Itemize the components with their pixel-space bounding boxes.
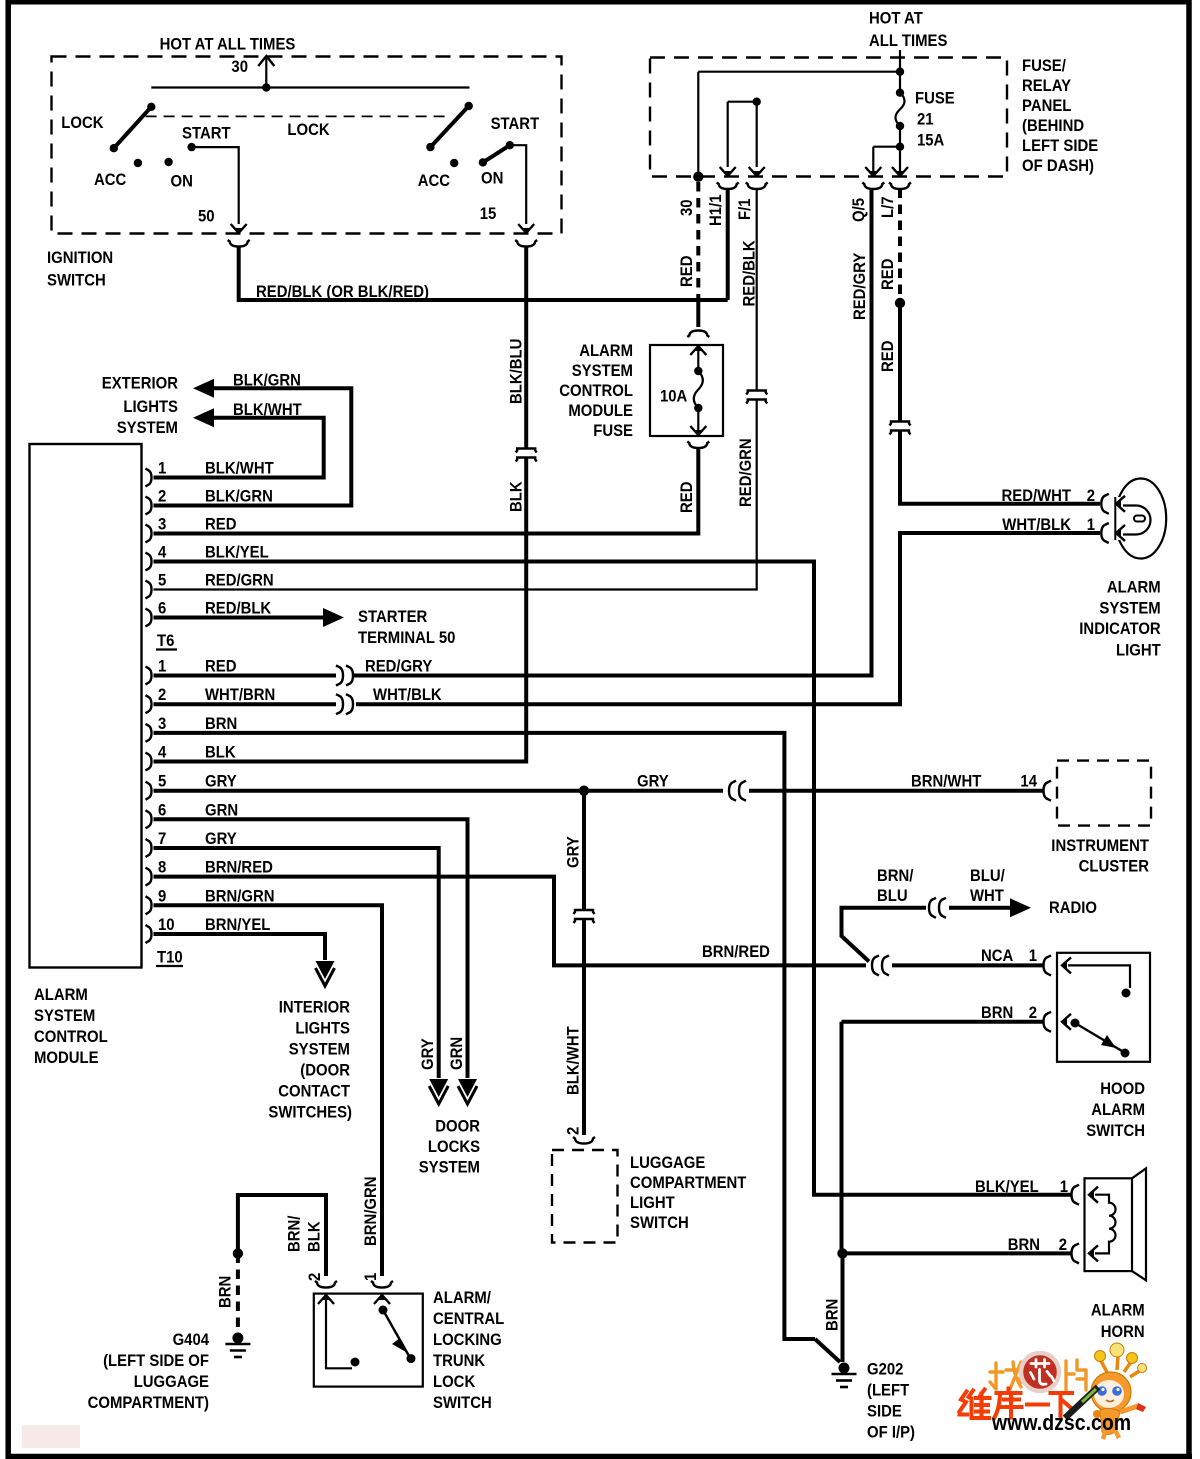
wire pin5 GRY to instrument cluster xyxy=(154,789,724,793)
in-line connector pin2 xyxy=(336,694,343,714)
svg-text:LOCK: LOCK xyxy=(433,1373,475,1391)
module T10 pin 2 connector xyxy=(146,695,152,713)
svg-text:BLK: BLK xyxy=(508,481,526,512)
svg-text:FUSE: FUSE xyxy=(593,422,633,440)
wire L/7 RED down xyxy=(898,189,902,299)
svg-text:BLK/GRN: BLK/GRN xyxy=(233,372,301,390)
module T10 pin 4 connector xyxy=(146,753,152,771)
svg-text:1: 1 xyxy=(1087,516,1095,534)
svg-text:SIDE: SIDE xyxy=(867,1403,902,1421)
junction below fuse 21 xyxy=(896,143,904,151)
svg-text:BLU/: BLU/ xyxy=(970,867,1005,885)
svg-text:6: 6 xyxy=(158,600,166,618)
svg-text:BLK/GRN: BLK/GRN xyxy=(205,488,273,506)
svg-text:SYSTEM: SYSTEM xyxy=(34,1007,95,1025)
trunk switch pin 2 arrow xyxy=(318,1295,334,1304)
connector H1/1 xyxy=(717,183,739,190)
svg-text:ON: ON xyxy=(171,173,193,191)
svg-text:BLK/BLU: BLK/BLU xyxy=(508,339,526,404)
svg-text:2: 2 xyxy=(565,1127,583,1135)
module T10 pin 5 connector xyxy=(146,782,152,800)
svg-text:BLK/WHT: BLK/WHT xyxy=(565,1026,583,1095)
arrow to radio xyxy=(1010,898,1031,917)
junction terminal 30 at panel edge xyxy=(693,172,703,182)
svg-text:ALARM: ALARM xyxy=(1091,1302,1145,1320)
svg-text:MODULE: MODULE xyxy=(34,1049,99,1067)
svg-text:LOCK: LOCK xyxy=(61,114,103,132)
svg-text:WHT: WHT xyxy=(970,887,1004,905)
watermark logo zhao character (find) xyxy=(990,1362,1022,1389)
svg-text:30: 30 xyxy=(678,199,696,216)
ignition switch dashed box xyxy=(52,57,562,234)
wire BRN/BLU radio branch xyxy=(842,908,927,962)
svg-text:RED: RED xyxy=(678,255,696,287)
in-line connector BRN/RED xyxy=(872,955,879,975)
svg-text:OF DASH): OF DASH) xyxy=(1022,157,1094,175)
horn coil xyxy=(1095,1195,1116,1254)
svg-text:IGNITION: IGNITION xyxy=(47,249,113,267)
svg-text:INTERIOR: INTERIOR xyxy=(279,999,350,1017)
module T10 pin 1 connector xyxy=(146,667,152,685)
wire BRN from hood switch down to ground junction xyxy=(840,1022,844,1254)
wire battery feed into fuse 21 xyxy=(899,50,901,92)
in-line connector pin1 xyxy=(336,666,343,686)
luggage compartment light switch dashed box xyxy=(552,1150,618,1243)
wire inside hood switch xyxy=(1068,965,1130,988)
connector trunk switch pin 2 xyxy=(315,1281,337,1288)
connector L/7 xyxy=(889,183,911,190)
svg-text:RED/BLK: RED/BLK xyxy=(205,600,271,618)
svg-text:1: 1 xyxy=(158,460,166,478)
svg-text:DOOR: DOOR xyxy=(435,1118,480,1136)
connector into fuse box top xyxy=(687,331,709,338)
svg-text:RED: RED xyxy=(678,481,696,513)
wire GRY branch down to luggage compartment light switch xyxy=(582,791,586,910)
ground G404 xyxy=(232,1333,243,1344)
svg-text:LUGGAGE: LUGGAGE xyxy=(134,1373,209,1391)
bulb terminal arrow 2 xyxy=(1116,496,1125,512)
svg-text:ALARM: ALARM xyxy=(34,986,88,1004)
in-line break terminal 15 wire xyxy=(516,449,537,453)
in-line break F/1 wire xyxy=(746,391,767,395)
horn terminal arrow 2 xyxy=(1089,1245,1098,1261)
arrow into terminal 15 xyxy=(518,224,534,233)
svg-text:HOT AT: HOT AT xyxy=(869,10,923,28)
trunk switch contact dot xyxy=(351,1358,360,1367)
wire RED/GRN to module pin5 xyxy=(154,400,757,590)
svg-text:Q/5: Q/5 xyxy=(850,198,868,222)
svg-text:15: 15 xyxy=(480,205,497,223)
wire RED/WHT to indicator light xyxy=(900,431,1100,504)
svg-text:LOCKS: LOCKS xyxy=(428,1138,480,1156)
wire BLK/BLU from terminal 15 down xyxy=(524,246,528,449)
svg-text:10: 10 xyxy=(158,916,175,934)
svg-text:BLK: BLK xyxy=(205,744,236,762)
svg-text:TRUNK: TRUNK xyxy=(433,1352,485,1370)
hood switch pin 1 arrow xyxy=(1062,957,1071,973)
svg-text:BRN/GRN: BRN/GRN xyxy=(205,887,275,905)
svg-text:BRN/: BRN/ xyxy=(877,867,914,885)
svg-text:COMPARTMENT): COMPARTMENT) xyxy=(88,1394,209,1412)
wire Q/5 RED/GRY down xyxy=(354,189,872,676)
module T6 pin 2 connector xyxy=(146,497,152,515)
svg-text:ALL TIMES: ALL TIMES xyxy=(869,32,947,50)
svg-text:BRN/WHT: BRN/WHT xyxy=(911,773,981,791)
wire link H1/1 to F/1 xyxy=(728,101,757,103)
svg-text:H1/1: H1/1 xyxy=(707,195,725,227)
svg-text:BRN: BRN xyxy=(1008,1236,1040,1254)
wire BRN to hood alarm switch pin 2 xyxy=(842,1020,1044,1024)
svg-text:6: 6 xyxy=(158,801,166,819)
svg-text:G404: G404 xyxy=(173,1331,210,1349)
junction BRN ground wire xyxy=(837,1248,847,1258)
module T6 pin 5 connector xyxy=(146,581,152,599)
fuse F21 15A xyxy=(896,89,904,97)
junction GRY branch xyxy=(579,786,589,796)
fuse 10A element xyxy=(694,371,703,408)
svg-text:CONTROL: CONTROL xyxy=(559,382,633,400)
wire branch to terminal 30 xyxy=(698,71,900,73)
svg-text:RELAY: RELAY xyxy=(1022,77,1071,95)
svg-text:F/1: F/1 xyxy=(736,199,754,221)
svg-text:OF I/P): OF I/P) xyxy=(867,1424,915,1442)
svg-text:SYSTEM: SYSTEM xyxy=(419,1159,480,1177)
svg-text:BLK: BLK xyxy=(306,1221,324,1252)
svg-text:G202: G202 xyxy=(867,1361,903,1379)
svg-text:LIGHT: LIGHT xyxy=(1116,641,1161,659)
module T10 pin 7 connector xyxy=(146,839,152,857)
svg-text:BRN: BRN xyxy=(205,715,237,733)
module T10 pin 8 connector xyxy=(146,868,152,886)
svg-text:T6: T6 xyxy=(157,632,174,650)
alarm/central locking trunk lock switch box xyxy=(314,1294,423,1387)
svg-text:ALARM: ALARM xyxy=(579,342,633,360)
svg-text:BRN/: BRN/ xyxy=(286,1215,304,1252)
svg-text:CONTROL: CONTROL xyxy=(34,1028,108,1046)
wire down to terminal 30 xyxy=(697,72,699,173)
svg-text:WHT/BRN: WHT/BRN xyxy=(205,686,275,704)
wire on contact to terminal 15 xyxy=(510,145,526,224)
wire pin2 BLK/GRN to exterior lights xyxy=(154,388,352,505)
svg-text:BLK/YEL: BLK/YEL xyxy=(205,544,269,562)
svg-text:RADIO: RADIO xyxy=(1049,899,1097,917)
svg-text:SWITCH: SWITCH xyxy=(630,1214,689,1232)
junction BRN dashed xyxy=(233,1248,243,1258)
wire fuse 21 output xyxy=(899,126,901,173)
svg-text:MODULE: MODULE xyxy=(568,402,633,420)
wire WHT/BLK from connector to indicator light xyxy=(356,533,1100,704)
junction F/1 top xyxy=(753,98,761,106)
svg-text:4: 4 xyxy=(158,744,167,762)
trunk switch contact dot 2 xyxy=(407,1354,416,1363)
watermark logo pian character (chip) xyxy=(1066,1360,1086,1390)
svg-text:WHT/BLK: WHT/BLK xyxy=(373,686,442,704)
wire RED dashed from terminal 30 xyxy=(696,182,700,297)
connector fuse box bottom xyxy=(687,442,709,449)
svg-text:HORN: HORN xyxy=(1101,1323,1145,1341)
watermark mascot xyxy=(1065,1343,1147,1439)
svg-text:RED: RED xyxy=(879,340,897,372)
wire pin2 WHT/BRN to in-line connector xyxy=(154,702,337,706)
wire pin7 GRY down to door locks xyxy=(154,848,439,1078)
wire pin6 RED/BLK to starter terminal 50 xyxy=(154,616,325,620)
arrow GRY to door locks system xyxy=(429,1079,448,1097)
svg-text:14: 14 xyxy=(1020,773,1037,791)
svg-text:RED/BLK (OR BLK/RED): RED/BLK (OR BLK/RED) xyxy=(256,283,429,301)
svg-text:BLK/WHT: BLK/WHT xyxy=(233,401,302,419)
svg-text:GRY: GRY xyxy=(205,773,237,791)
svg-text:5: 5 xyxy=(158,773,166,791)
hood switch pin 2 arrow xyxy=(1062,1014,1071,1030)
svg-text:START: START xyxy=(491,115,540,133)
svg-text:INDICATOR: INDICATOR xyxy=(1079,620,1160,638)
wire ignition B+ feed up xyxy=(265,58,267,88)
svg-text:RED/WHT: RED/WHT xyxy=(1002,487,1072,505)
svg-text:SYSTEM: SYSTEM xyxy=(1099,599,1160,617)
wire pin9 BRN/GRN down to trunk lock switch xyxy=(154,905,383,1276)
svg-text:www.dzsc.com: www.dzsc.com xyxy=(991,1410,1131,1435)
svg-text:(DOOR: (DOOR xyxy=(300,1062,350,1080)
bulb terminal arrow 1 xyxy=(1116,525,1125,541)
wire pin1 BLK/WHT to exterior lights xyxy=(154,418,324,478)
svg-text:3: 3 xyxy=(158,516,166,534)
arrow GRN to door locks system xyxy=(458,1079,477,1097)
svg-text:(LEFT: (LEFT xyxy=(867,1382,909,1400)
svg-text:21: 21 xyxy=(917,111,934,129)
wire pin6 GRN down to door locks xyxy=(154,819,468,1078)
svg-text:GRY: GRY xyxy=(205,830,237,848)
horn terminal arrow 1 xyxy=(1089,1187,1098,1203)
wire pin1 RED to in-line connector xyxy=(154,674,337,678)
svg-text:5: 5 xyxy=(158,572,166,590)
svg-text:BRN: BRN xyxy=(981,1004,1013,1022)
svg-text:HOT AT ALL TIMES: HOT AT ALL TIMES xyxy=(160,36,296,54)
svg-text:RED/GRN: RED/GRN xyxy=(205,572,274,590)
svg-text:LOCK: LOCK xyxy=(287,121,329,139)
svg-text:BRN/RED: BRN/RED xyxy=(205,859,273,877)
wire BRN dashed to G404 xyxy=(236,1254,240,1333)
wire BLK down to module pin4 xyxy=(154,458,527,762)
arrow to exterior lights system BLK/WHT xyxy=(193,408,214,427)
svg-text:30: 30 xyxy=(231,58,248,76)
svg-text:BRN: BRN xyxy=(217,1276,235,1308)
mechanical coupling dashed line xyxy=(146,115,447,117)
svg-text:TERMINAL 50: TERMINAL 50 xyxy=(358,629,455,647)
junction L/7 RED xyxy=(895,298,905,308)
svg-text:2: 2 xyxy=(1087,487,1095,505)
arrow terminal Q/5 xyxy=(865,167,881,176)
wire RED from fuse to module pin3 xyxy=(154,448,699,534)
svg-text:RED: RED xyxy=(205,516,237,534)
connector hood alarm switch pin 2 xyxy=(1044,1012,1052,1032)
svg-text:ACC: ACC xyxy=(94,171,126,189)
wire NCA to hood alarm switch xyxy=(892,963,1043,967)
svg-text:2: 2 xyxy=(1029,1004,1037,1022)
wire pin3 BRN down to G202 xyxy=(154,733,816,1339)
svg-text:(LEFT SIDE OF: (LEFT SIDE OF xyxy=(103,1352,209,1370)
svg-text:L/7: L/7 xyxy=(879,197,897,219)
arrow to exterior lights system BLK/GRN xyxy=(193,379,214,398)
svg-text:LOCKING: LOCKING xyxy=(433,1331,502,1349)
svg-text:SYSTEM: SYSTEM xyxy=(117,419,178,437)
svg-text:ON: ON xyxy=(481,170,503,188)
svg-text:INSTRUMENT: INSTRUMENT xyxy=(1051,837,1149,855)
connector terminal 50 xyxy=(228,240,250,247)
svg-text:RED/GRN: RED/GRN xyxy=(737,438,755,507)
svg-text:LIGHTS: LIGHTS xyxy=(295,1020,350,1038)
module T10 pin 9 connector xyxy=(146,896,152,914)
wire BRN diagonal to G202 xyxy=(815,1339,840,1362)
right ignition switch contacts xyxy=(465,102,473,110)
in-line break GRY branch xyxy=(574,910,595,914)
svg-text:10A: 10A xyxy=(660,388,687,406)
svg-text:(BEHIND: (BEHIND xyxy=(1022,117,1084,135)
svg-text:BLK/YEL: BLK/YEL xyxy=(975,1178,1039,1196)
svg-text:RED: RED xyxy=(205,658,237,676)
svg-text:RED/GRY: RED/GRY xyxy=(365,658,432,676)
trunk switch blade xyxy=(383,1310,409,1356)
wire start contact to terminal 50 xyxy=(192,147,239,224)
arrow to interior lights system xyxy=(316,961,335,979)
connector Q/5 xyxy=(862,183,884,190)
svg-text:FUSE/: FUSE/ xyxy=(1022,57,1066,75)
in-line break L/7 wire xyxy=(890,422,911,426)
wire BRN/BLK trunk pin2 to G404 xyxy=(238,1195,326,1276)
svg-text:4: 4 xyxy=(158,544,167,562)
wire BRN down to G202 xyxy=(841,1253,845,1362)
ground G202 xyxy=(839,1363,850,1374)
svg-text:LIGHTS: LIGHTS xyxy=(123,398,178,416)
svg-text:GRY: GRY xyxy=(637,773,669,791)
left ignition switch contacts xyxy=(147,103,155,111)
watermark text weikuyixia (vector) xyxy=(960,1389,1073,1419)
alarm system control module fuse box xyxy=(650,345,723,436)
svg-text:2: 2 xyxy=(306,1273,324,1281)
svg-text:1: 1 xyxy=(1060,1178,1068,1196)
svg-text:BLU: BLU xyxy=(877,887,908,905)
connector hood alarm switch pin 1 xyxy=(1044,955,1052,975)
svg-text:SWITCH: SWITCH xyxy=(433,1394,492,1412)
wire RED/BLK from terminal 50 xyxy=(239,246,728,300)
svg-text:BRN/RED: BRN/RED xyxy=(702,943,770,961)
svg-text:3: 3 xyxy=(158,715,166,733)
wire inside fuse box xyxy=(697,350,699,371)
connector alarm horn pin 2 xyxy=(1072,1243,1080,1263)
svg-text:15A: 15A xyxy=(917,132,944,150)
module T10 pin 3 connector xyxy=(146,724,152,742)
svg-text:NCA: NCA xyxy=(981,947,1013,965)
svg-text:EXTERIOR: EXTERIOR xyxy=(102,375,178,393)
in-line connector GRY/BRN-WHT xyxy=(729,781,736,801)
scan artifact pink rectangle xyxy=(22,1425,80,1448)
connector F/1 xyxy=(746,183,768,190)
svg-text:SWITCH: SWITCH xyxy=(47,272,106,290)
instrument cluster dashed box xyxy=(1057,761,1151,826)
hood switch contact dot 2 xyxy=(1121,1049,1130,1058)
svg-text:ALARM/: ALARM/ xyxy=(433,1289,491,1307)
svg-text:SWITCH: SWITCH xyxy=(1086,1122,1145,1140)
svg-text:BLK/WHT: BLK/WHT xyxy=(205,460,274,478)
wire BRN to alarm horn pin 2 xyxy=(843,1251,1072,1255)
wire pin10 BRN/YEL to interior lights xyxy=(154,934,326,960)
arrow terminal H1/1 xyxy=(720,167,736,176)
svg-text:ACC: ACC xyxy=(418,172,450,190)
svg-text:T10: T10 xyxy=(157,949,183,967)
svg-text:CENTRAL: CENTRAL xyxy=(433,1310,504,1328)
watermark magnifier with xin character xyxy=(1021,1353,1059,1391)
wire BRN/WHT to instrument cluster xyxy=(749,789,1043,793)
wire ignition internal bus xyxy=(151,86,469,88)
svg-text:START: START xyxy=(182,125,231,143)
svg-text:PANEL: PANEL xyxy=(1022,97,1071,115)
hood switch contact dot xyxy=(1122,989,1131,998)
connector terminal 15 xyxy=(515,240,537,247)
svg-text:BRN/YEL: BRN/YEL xyxy=(205,916,270,934)
connector alarm horn pin 1 xyxy=(1072,1185,1080,1205)
module T10 pin 10 connector xyxy=(146,925,152,943)
arrow into terminal 50 xyxy=(231,224,247,233)
connector indicator light pin 2 xyxy=(1101,494,1109,514)
alarm horn body xyxy=(1085,1178,1133,1271)
module T6 pin 4 connector xyxy=(146,553,152,571)
svg-text:HOOD: HOOD xyxy=(1100,1080,1145,1098)
svg-text:BRN: BRN xyxy=(824,1299,842,1331)
trunk switch pin 1 arrow xyxy=(374,1295,390,1304)
svg-text:COMPARTMENT: COMPARTMENT xyxy=(630,1174,746,1192)
wire BLK/YEL to alarm horn xyxy=(154,562,1072,1195)
svg-text:SYSTEM: SYSTEM xyxy=(572,362,633,380)
svg-text:1: 1 xyxy=(1029,947,1037,965)
alarm system control module box xyxy=(30,444,142,968)
svg-text:SWITCHES): SWITCHES) xyxy=(268,1104,352,1122)
svg-text:LIGHT: LIGHT xyxy=(630,1194,675,1212)
hood switch blade xyxy=(1075,1023,1122,1051)
junction battery feed xyxy=(896,68,904,76)
arrow up to HOT AT ALL TIMES xyxy=(258,56,274,66)
wire BLU/WHT to radio xyxy=(949,906,1012,910)
svg-text:GRY: GRY xyxy=(565,836,583,868)
bulb filament xyxy=(1123,506,1151,535)
svg-text:BRN/GRN: BRN/GRN xyxy=(362,1177,380,1247)
arrow terminal F/1 xyxy=(749,167,765,176)
svg-text:2: 2 xyxy=(158,686,166,704)
svg-text:RED/GRY: RED/GRY xyxy=(851,253,869,320)
wire pin8 BRN/RED to hood alarm switch xyxy=(154,877,867,966)
svg-text:RED: RED xyxy=(879,258,897,290)
module T6 pin 1 connector xyxy=(146,469,152,487)
svg-text:LUGGAGE: LUGGAGE xyxy=(630,1154,705,1172)
svg-text:7: 7 xyxy=(158,830,166,848)
connector luggage light switch xyxy=(573,1137,595,1144)
wire branch to Q/5 xyxy=(873,146,900,148)
svg-text:50: 50 xyxy=(198,208,215,226)
hood alarm switch box xyxy=(1057,953,1150,1062)
connector trunk switch pin 1 xyxy=(371,1281,393,1288)
svg-text:SYSTEM: SYSTEM xyxy=(289,1041,350,1059)
svg-text:CONTACT: CONTACT xyxy=(278,1083,350,1101)
svg-text:WHT/BLK: WHT/BLK xyxy=(1002,516,1071,534)
svg-text:FUSE: FUSE xyxy=(915,90,955,108)
wire inside trunk switch xyxy=(326,1300,352,1368)
svg-text:ALARM: ALARM xyxy=(1107,579,1161,597)
hood switch pivot dot xyxy=(1071,1019,1080,1028)
svg-text:ALARM: ALARM xyxy=(1091,1101,1145,1119)
arrow terminal L/7 xyxy=(892,167,908,176)
connector instrument cluster pin 14 xyxy=(1044,781,1052,801)
junction ignition feed xyxy=(262,83,270,91)
module T6 pin 6 connector xyxy=(146,609,152,627)
svg-text:LEFT SIDE: LEFT SIDE xyxy=(1022,137,1098,155)
